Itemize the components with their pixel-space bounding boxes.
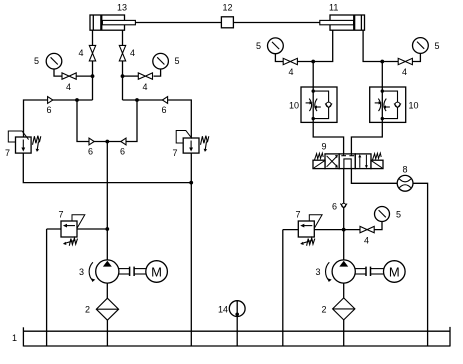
wire relief drain to tank [46, 229, 48, 346]
shaft coupling right [355, 267, 383, 276]
cylinder 13 [90, 3, 135, 31]
svg-text:M: M [151, 265, 162, 280]
gauge 5 (right pump) [375, 207, 402, 222]
motor M (right) [384, 261, 406, 283]
node junction [105, 140, 109, 144]
wire valve to junction [92, 61, 94, 100]
tank 1 [12, 327, 450, 347]
svg-text:4: 4 [66, 82, 71, 92]
wire to node [76, 75, 92, 77]
svg-text:4: 4 [79, 48, 84, 58]
svg-text:10: 10 [289, 101, 299, 111]
svg-text:7: 7 [5, 148, 10, 158]
node junction [75, 98, 79, 102]
gauge 5 (far right top) [413, 38, 440, 54]
wire to node [123, 75, 139, 77]
wire node to gauge valve [344, 229, 360, 231]
wire pump relief connections [47, 228, 108, 230]
directional valve 9 [313, 142, 383, 169]
wire main pump line left [106, 142, 108, 260]
motor M (left) [146, 261, 168, 283]
wire T line to flow meter [351, 169, 397, 184]
svg-text:7: 7 [173, 148, 178, 158]
svg-text:2: 2 [322, 305, 327, 315]
svg-text:4: 4 [289, 67, 294, 77]
svg-text:M: M [389, 265, 400, 280]
check valve 6 [47, 97, 53, 115]
gauge 5 (right circuit left) [256, 38, 283, 54]
node junction [380, 60, 384, 64]
svg-text:6: 6 [88, 147, 93, 157]
wire to node [382, 61, 398, 63]
wire to gauge stem [374, 222, 382, 230]
wire gauge stem [275, 54, 283, 62]
svg-text:5: 5 [435, 41, 440, 51]
node junction [135, 98, 139, 102]
check valve 6 diamond [120, 138, 126, 156]
gauge valve 4 (right pump) [360, 226, 374, 245]
svg-text:4: 4 [364, 236, 369, 246]
check valve 6 diamond [162, 97, 168, 115]
svg-text:4: 4 [402, 67, 407, 77]
node junction [189, 181, 193, 185]
wire flow control B to valve 9 port B [351, 122, 382, 154]
svg-text:10: 10 [409, 101, 419, 111]
svg-text:14: 14 [218, 305, 228, 315]
gauge 5 (far left) [34, 53, 62, 69]
wire crossover loop [77, 100, 137, 142]
svg-text:2: 2 [85, 305, 90, 315]
filter 2 (left) [85, 298, 119, 320]
valve 4 (right cylinder line) [119, 45, 135, 61]
orifice 12 [221, 3, 233, 28]
cylinder 11 [320, 3, 365, 31]
wire pump relief connections [283, 229, 344, 231]
flow control valve 10 (right) [370, 87, 419, 122]
wire left manifold y=100 [24, 100, 93, 137]
wire relief to tank [190, 153, 192, 346]
valve 4 (left cylinder line) [79, 45, 96, 61]
svg-text:8: 8 [403, 165, 408, 175]
svg-text:5: 5 [34, 56, 39, 66]
node junction [105, 227, 109, 231]
relief valve 7 (far left) [5, 131, 41, 158]
svg-text:6: 6 [162, 105, 167, 115]
shaft coupling left [119, 267, 146, 276]
wire pump to filter [343, 283, 345, 298]
wire relief drain across [23, 153, 191, 183]
relief valve 7 (mid left) [173, 131, 209, 159]
wire P line down [343, 169, 345, 260]
wire filter to tank [343, 320, 345, 346]
svg-text:7: 7 [59, 210, 64, 220]
wire cyl13 left port down [92, 30, 94, 45]
wire orifice 12 to rod 11 [233, 22, 319, 24]
wire gauge stem [54, 69, 62, 76]
pump 3 (left) [79, 260, 119, 283]
wire flow meter to tank [413, 183, 428, 346]
svg-text:9: 9 [322, 142, 327, 152]
node junction [91, 74, 95, 78]
check valve 6 (ball) [332, 202, 347, 212]
wire valve to junction [122, 61, 124, 100]
wire node to flow control B [381, 62, 383, 88]
pump 3 (right) [316, 260, 356, 283]
wire flow control A to valve 9 port A [313, 122, 343, 154]
relief valve 7 (left pump) [59, 210, 85, 246]
svg-text:3: 3 [316, 267, 321, 277]
gauge valve 4 [283, 58, 297, 77]
gauge valve 4 [398, 58, 412, 77]
wire gauge stem [154, 69, 161, 76]
svg-text:6: 6 [332, 202, 337, 212]
wire cyl13 right port down [122, 30, 124, 45]
svg-text:1: 1 [12, 333, 17, 343]
wire to node [297, 61, 313, 63]
node junction [311, 60, 315, 64]
node junction [121, 74, 125, 78]
svg-text:7: 7 [296, 210, 301, 220]
svg-text:5: 5 [256, 41, 261, 51]
node junction [342, 228, 346, 232]
wire relief drain to tank [282, 230, 284, 346]
svg-text:13: 13 [117, 3, 127, 13]
svg-text:5: 5 [175, 56, 180, 66]
gauge 5 (inner left) [153, 53, 180, 69]
wire cyl11 right port [363, 30, 382, 61]
gauge valve 4 (far left) [62, 73, 76, 92]
wire rod13 to orifice 12 [135, 22, 221, 24]
svg-text:11: 11 [329, 3, 338, 13]
filter 2 (right) [322, 298, 355, 320]
svg-text:3: 3 [79, 267, 84, 277]
flow control valve 10 (left) [289, 87, 337, 122]
gauge valve 4 (inner left) [138, 73, 152, 92]
wire right manifold y=100 [123, 100, 192, 138]
wire gauge stem [412, 53, 420, 61]
svg-text:6: 6 [120, 147, 125, 157]
svg-text:4: 4 [130, 48, 135, 58]
wire cyl11 left port [313, 30, 333, 61]
thermometer 14 [218, 301, 245, 346]
relief valve 7 (right pump) [296, 210, 323, 246]
svg-text:5: 5 [396, 210, 401, 220]
svg-text:4: 4 [143, 82, 148, 92]
svg-text:12: 12 [223, 3, 233, 13]
wire node to flow control A [312, 62, 314, 88]
wire pump to filter [106, 283, 108, 298]
check valve 6 [88, 138, 94, 156]
flow meter 8 [397, 165, 413, 192]
wire filter to tank [106, 320, 108, 346]
svg-text:6: 6 [47, 105, 52, 115]
